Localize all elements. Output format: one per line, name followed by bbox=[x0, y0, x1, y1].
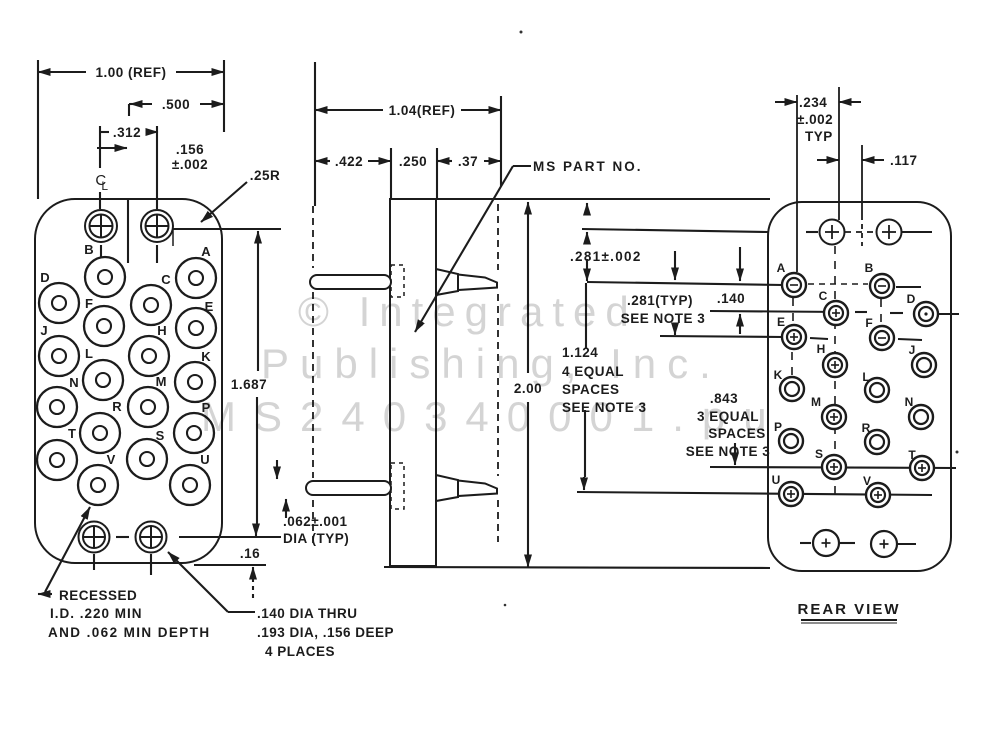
svg-text:N: N bbox=[905, 395, 914, 409]
svg-text:1.00 (REF): 1.00 (REF) bbox=[95, 65, 166, 80]
svg-text:.156: .156 bbox=[176, 142, 204, 157]
svg-text:MS PART NO.: MS PART NO. bbox=[533, 159, 643, 174]
svg-text:TYP: TYP bbox=[805, 129, 833, 144]
svg-text:F: F bbox=[85, 296, 93, 311]
svg-text:±.002: ±.002 bbox=[797, 112, 833, 127]
svg-text:I.D. .220 MIN: I.D. .220 MIN bbox=[50, 606, 143, 621]
svg-text:.140 DIA THRU: .140 DIA THRU bbox=[257, 606, 358, 621]
svg-text:.25R: .25R bbox=[250, 168, 281, 183]
svg-text:M: M bbox=[811, 395, 821, 409]
svg-text:REAR VIEW: REAR VIEW bbox=[797, 601, 900, 618]
svg-text:N: N bbox=[69, 375, 78, 390]
svg-text:V: V bbox=[107, 452, 116, 467]
svg-text:J: J bbox=[909, 343, 916, 357]
svg-text:F: F bbox=[865, 316, 872, 330]
svg-text:H: H bbox=[817, 342, 826, 356]
svg-text:±.002: ±.002 bbox=[172, 157, 208, 172]
svg-text:MS240340001.pu: MS240340001.pu bbox=[201, 393, 785, 440]
svg-text:E: E bbox=[205, 299, 214, 314]
svg-text:.234: .234 bbox=[799, 95, 827, 110]
svg-text:K: K bbox=[201, 349, 211, 364]
svg-text:1.04(REF): 1.04(REF) bbox=[389, 103, 456, 118]
svg-text:M: M bbox=[156, 374, 167, 389]
svg-text:C: C bbox=[161, 272, 171, 287]
svg-text:S: S bbox=[815, 447, 823, 461]
svg-text:B: B bbox=[865, 261, 874, 275]
svg-text:.422: .422 bbox=[335, 154, 363, 169]
svg-text:L: L bbox=[85, 346, 93, 361]
svg-text:C: C bbox=[819, 289, 828, 303]
svg-text:.117: .117 bbox=[890, 153, 918, 168]
svg-text:R: R bbox=[112, 399, 122, 414]
svg-text:S: S bbox=[156, 428, 165, 443]
svg-text:.37: .37 bbox=[458, 154, 478, 169]
svg-text:A: A bbox=[777, 261, 786, 275]
svg-text:U: U bbox=[772, 473, 781, 487]
svg-text:D: D bbox=[907, 292, 916, 306]
svg-text:D: D bbox=[40, 270, 49, 285]
svg-text:.062±.001: .062±.001 bbox=[283, 514, 347, 529]
svg-text:R: R bbox=[862, 421, 871, 435]
svg-text:.140: .140 bbox=[717, 291, 745, 306]
svg-text:E: E bbox=[777, 315, 785, 329]
svg-text:.500: .500 bbox=[162, 97, 190, 112]
svg-text:T: T bbox=[68, 426, 76, 441]
svg-text:Publishing, Inc.: Publishing, Inc. bbox=[261, 340, 722, 387]
svg-text:DIA (TYP): DIA (TYP) bbox=[283, 531, 349, 546]
svg-text:H: H bbox=[157, 323, 166, 338]
svg-text:T: T bbox=[908, 448, 916, 462]
svg-text:4 PLACES: 4 PLACES bbox=[265, 644, 335, 659]
svg-text:.16: .16 bbox=[240, 546, 260, 561]
svg-text:L: L bbox=[862, 370, 869, 384]
svg-text:U: U bbox=[200, 452, 209, 467]
svg-text:© Integrated: © Integrated bbox=[298, 288, 638, 335]
svg-text:.193 DIA, .156 DEEP: .193 DIA, .156 DEEP bbox=[257, 625, 394, 640]
svg-text:.281±.002: .281±.002 bbox=[570, 249, 642, 264]
svg-text:A: A bbox=[201, 244, 211, 259]
svg-text:L: L bbox=[101, 179, 108, 193]
svg-text:J: J bbox=[40, 323, 47, 338]
svg-text:SEE NOTE 3: SEE NOTE 3 bbox=[686, 444, 771, 459]
svg-text:RECESSED: RECESSED bbox=[59, 588, 137, 603]
svg-text:.250: .250 bbox=[399, 154, 427, 169]
svg-text:V: V bbox=[863, 474, 871, 488]
svg-text:B: B bbox=[84, 242, 93, 257]
svg-text:AND .062 MIN DEPTH: AND .062 MIN DEPTH bbox=[48, 625, 210, 640]
svg-text:.312: .312 bbox=[113, 125, 141, 140]
svg-text:K: K bbox=[774, 368, 783, 382]
